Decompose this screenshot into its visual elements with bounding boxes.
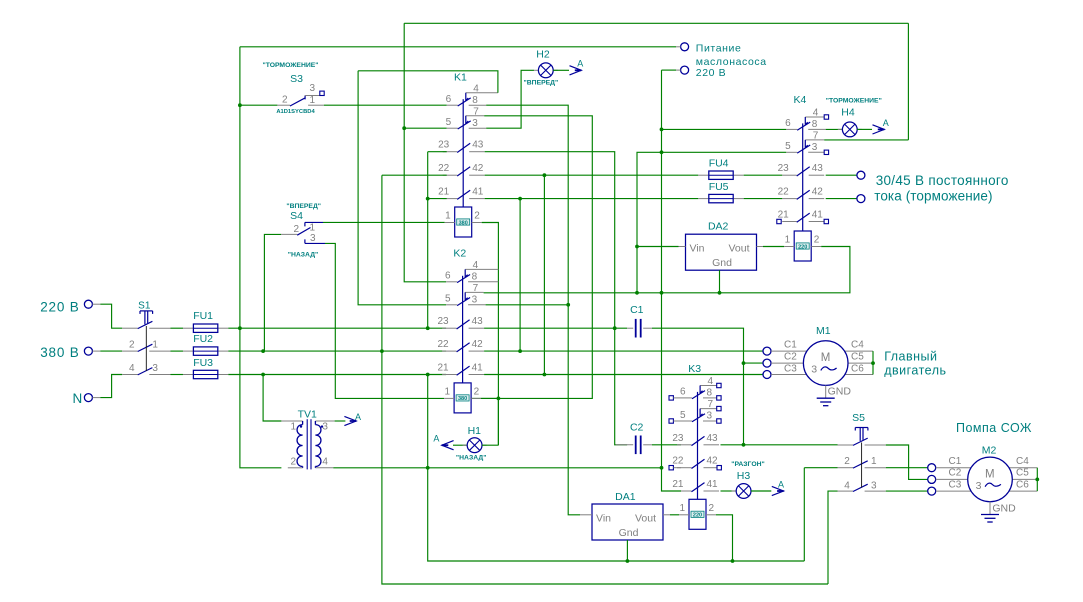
S3 pin numbers (282, 83, 316, 106)
contactor K4 contact 6-4-8 (786, 117, 826, 130)
lamp H4 (838, 122, 862, 137)
terminal 380V (84, 347, 92, 355)
wire DA2 Vin feed (637, 246, 679, 248)
wire bus to K3-21 (662, 70, 682, 491)
motor M1 terminals (763, 347, 873, 378)
net arrow A at H2 (570, 66, 582, 75)
wire K4-43 to terminal (826, 174, 857, 176)
contactor K3 coil (679, 499, 716, 529)
wire DA2 Vin stub (679, 246, 686, 248)
terminal 220V (84, 300, 92, 308)
svg-text:42: 42 (472, 163, 484, 174)
label M2 GND (992, 503, 1016, 515)
wire K2-7 to DA2 Vin net (484, 152, 662, 292)
K2 pins 6 4 8 7 (445, 260, 479, 294)
label FU1 (193, 310, 213, 322)
label M2 (982, 445, 997, 457)
svg-text:3: 3 (310, 83, 316, 94)
wire K3-41 to H3 (721, 490, 737, 492)
junction FU2/S4 (261, 349, 265, 353)
wire S1-1 to FU1 (171, 327, 184, 329)
label H4 (841, 107, 855, 119)
contactor K1 spine (462, 99, 464, 207)
svg-text:4: 4 (844, 481, 850, 492)
svg-text:43: 43 (812, 163, 824, 174)
label TV1 (298, 408, 317, 420)
wire 220V to S1 (100, 304, 122, 328)
switch S5 pole 2 (838, 461, 886, 468)
wire S3 left (240, 104, 278, 106)
svg-text:220 В: 220 В (40, 300, 79, 315)
svg-text:41: 41 (472, 363, 484, 374)
TV1 pin numbers (290, 422, 328, 468)
wire H2 left (521, 70, 534, 77)
svg-text:3: 3 (976, 480, 982, 492)
terminal 30/45V 1 (857, 171, 865, 179)
K1 pins 6 4 8 7 (446, 83, 480, 117)
svg-text:H3: H3 (737, 470, 751, 482)
svg-text:M: M (985, 468, 995, 480)
contactor K2 contact 21-41 (442, 366, 484, 375)
K4 pins 23 43 (778, 163, 824, 174)
S1 pin numbers (129, 340, 158, 374)
wire K4-5 feed (662, 151, 787, 153)
junction K1-42 tap (543, 173, 547, 177)
label C1 (630, 304, 644, 316)
svg-text:"ТОРМОЖЕНИЕ": "ТОРМОЖЕНИЕ" (826, 98, 882, 105)
K2 pins 21 41 (437, 363, 483, 374)
ground M1 (817, 385, 835, 405)
svg-text:C3: C3 (784, 363, 797, 374)
junction bus end (660, 466, 664, 470)
wire DA2 Vout to K4 coil (757, 246, 764, 248)
svg-text:2: 2 (290, 456, 296, 467)
switch S1 label (138, 300, 151, 311)
label S3 type (276, 109, 315, 115)
wire TV1-1 riser (263, 375, 281, 422)
wire FU4 to K4-23 (744, 174, 783, 176)
regulator DA1 (592, 504, 663, 540)
svg-text:5: 5 (680, 410, 686, 421)
switch S5 pole 3 (838, 484, 886, 491)
K1 pins 23 43 (438, 140, 484, 151)
svg-text:"НАЗАД": "НАЗАД" (288, 252, 319, 259)
svg-text:2: 2 (129, 340, 135, 351)
svg-text:Gnd: Gnd (619, 527, 639, 539)
junction C1 left (613, 326, 617, 330)
wire K1 coil return (482, 223, 499, 446)
label 30/45V text (874, 173, 1008, 204)
K3 pins 23 43 (672, 433, 718, 444)
wire S1-3 to FU3 (171, 374, 184, 376)
wire S5 pole3 left (828, 491, 838, 584)
contactor K2 contact 22-42 (442, 343, 484, 352)
svg-text:22: 22 (672, 456, 684, 467)
svg-text:22: 22 (437, 339, 449, 350)
wire K1-21 feed (428, 198, 447, 200)
svg-text:Помпа СОЖ: Помпа СОЖ (956, 421, 1032, 435)
K4 pins 6 4 8 7 (785, 108, 819, 142)
wire 380V to S1 (100, 350, 122, 352)
wire top border (404, 22, 908, 24)
K3 pins 6 4 8 7 (680, 376, 714, 410)
junction K1-5 tap (402, 126, 406, 130)
svg-text:5: 5 (445, 294, 451, 305)
K2 pins 23 43 (437, 316, 483, 327)
label H3 caption (731, 461, 765, 468)
svg-text:43: 43 (472, 140, 484, 151)
wire K1-22 vertical (382, 175, 828, 584)
junction K1-41 tap (518, 197, 522, 201)
svg-text:тока (торможение): тока (торможение) (874, 189, 992, 204)
wire H4 left (826, 128, 843, 130)
wire S5 pole2 feed (804, 467, 837, 469)
svg-text:8: 8 (707, 388, 713, 399)
svg-text:5: 5 (785, 141, 791, 152)
wire K4-7 to top border (824, 139, 908, 141)
svg-text:Vout: Vout (635, 513, 656, 525)
svg-text:2: 2 (293, 224, 299, 235)
wire S4-3 to K2 coil (325, 243, 444, 398)
label pump text (956, 421, 1032, 435)
junction K2-41 row (543, 373, 547, 377)
fuse FU2 (183, 347, 228, 355)
svg-text:H2: H2 (536, 49, 550, 61)
wire K2-41 to M1-C3 (484, 374, 763, 376)
svg-text:A: A (883, 118, 889, 128)
contactor K3 contact 5-7-3 (681, 409, 717, 422)
svg-text:S4: S4 (290, 210, 303, 222)
contactor K1 coil (445, 207, 482, 237)
wire H3 right (751, 490, 771, 492)
wire N terminal stub (92, 397, 100, 399)
svg-text:C5: C5 (1016, 468, 1029, 479)
svg-text:2: 2 (474, 211, 480, 222)
svg-text:C1: C1 (949, 456, 962, 467)
label A at TV1 (355, 412, 361, 422)
switch S1 link (145, 326, 147, 371)
wire FU2 to K2-22 row (228, 350, 446, 352)
svg-text:Vin: Vin (690, 243, 705, 255)
svg-text:Питание: Питание (696, 43, 742, 55)
svg-text:4: 4 (473, 83, 479, 94)
wire H4 right (857, 128, 872, 130)
label FU2 (193, 333, 213, 345)
svg-text:23: 23 (778, 163, 790, 174)
svg-text:K3: K3 (688, 363, 701, 375)
terminal pump supply 2 (681, 66, 689, 74)
svg-text:1: 1 (445, 211, 451, 222)
svg-text:3: 3 (152, 363, 158, 374)
wire S5 pole1 to M2-C2 (886, 445, 928, 479)
wire K1-42 to FU4 (485, 174, 699, 176)
label A at H1 (433, 434, 439, 444)
label S4 (290, 210, 303, 222)
junction M1 bracket (871, 361, 875, 365)
svg-text:41: 41 (707, 479, 719, 490)
K3 unconnected pin square (669, 419, 673, 423)
svg-text:"ВПЕРЕД": "ВПЕРЕД" (286, 203, 321, 210)
junction DA2 return (660, 291, 664, 295)
svg-text:Vout: Vout (728, 243, 749, 255)
contactor K1 contact 21-41 (443, 190, 485, 199)
wire S4-1 to K1 coil (323, 221, 445, 223)
svg-text:8: 8 (812, 119, 818, 130)
label FU3 (193, 357, 213, 369)
svg-text:1: 1 (290, 422, 296, 433)
svg-text:41: 41 (812, 210, 824, 221)
wire K4 coil return (637, 247, 850, 293)
svg-text:A: A (577, 59, 583, 69)
terminal N (84, 394, 92, 402)
svg-text:маслонасоса: маслонасоса (696, 56, 767, 68)
wire DA2 gnd stem (719, 270, 721, 293)
K4 pins 21 41 (778, 210, 824, 221)
wire H2 right (553, 69, 569, 71)
wire oil pump supply (240, 46, 676, 48)
wire S3 to K1-6 (324, 104, 447, 106)
wire S5-3 to M2-C3 (886, 490, 928, 492)
K4 unconnected pin square (824, 115, 828, 119)
svg-text:1: 1 (445, 387, 451, 398)
contactor K3 contact 21-41 (677, 483, 719, 492)
svg-text:двигатель: двигатель (884, 364, 946, 378)
svg-text:2: 2 (709, 503, 715, 514)
wire DA1 Vout to K3 coil (663, 514, 670, 516)
contactor K3 contact 6-4-8 (681, 386, 717, 399)
lamp H3 (732, 484, 756, 499)
pushbutton S4 (281, 222, 325, 243)
svg-text:C2: C2 (630, 422, 644, 434)
svg-text:1: 1 (785, 235, 791, 246)
label M1 GND (828, 386, 852, 398)
K4 unconnected pin square (824, 219, 828, 223)
svg-text:GND: GND (992, 503, 1016, 515)
capacitor C1 (627, 327, 652, 329)
svg-text:1: 1 (871, 456, 877, 467)
wire K2-3 to DA1 riser (486, 304, 569, 306)
svg-text:FU2: FU2 (193, 333, 213, 345)
svg-text:6: 6 (445, 271, 451, 282)
svg-text:42: 42 (707, 456, 719, 467)
label H3 (737, 470, 751, 482)
junction FU3/K1 branch (426, 373, 430, 377)
contactor K4 coil (784, 231, 821, 261)
wire M1-C2 feed (744, 362, 763, 364)
wire K1-7 to K2 coil net (471, 116, 592, 399)
label pump supply text (696, 43, 767, 80)
K2 pins 5 3 (445, 294, 478, 306)
wire S5 pole2 riser (803, 468, 805, 561)
K3 coil pins 1 2 (679, 503, 714, 514)
net arrow A at TV1 (344, 416, 356, 425)
label H1 caption (456, 454, 487, 461)
K2 pins 22 42 (437, 339, 483, 350)
svg-text:5: 5 (446, 117, 452, 128)
wire K1-23 branch (428, 151, 447, 153)
wire S4 common (264, 234, 281, 351)
label FU5 (709, 181, 729, 193)
svg-text:A: A (778, 479, 784, 489)
wire K1-8 to DA1 net (486, 105, 580, 515)
svg-text:380: 380 (458, 396, 467, 402)
svg-text:3: 3 (472, 118, 478, 129)
wire M2 right bracket (1036, 468, 1038, 491)
K3 unconnected pin square (717, 419, 721, 423)
wire bus FU1 phase vertical (240, 47, 282, 468)
svg-text:21: 21 (438, 187, 450, 198)
wire FU3 to K2-21 row (228, 374, 446, 376)
svg-text:4: 4 (813, 108, 819, 119)
contactor K4 contact 23-43 (782, 167, 824, 176)
wire K4-6 feed (662, 128, 787, 130)
junction S3 tap (238, 103, 242, 107)
wire K1-22 left (382, 174, 447, 176)
junction K4-5 (660, 150, 664, 154)
svg-text:8: 8 (472, 271, 478, 282)
junction K4-6 (660, 127, 664, 131)
K3 unconnected pin square (669, 466, 673, 470)
junction DA2 Vin branch (635, 245, 639, 249)
switch S5 actuator (855, 428, 868, 441)
contactor K4 contact 22-42 (782, 190, 824, 199)
regulator DA2 (686, 234, 757, 270)
svg-text:3: 3 (707, 411, 713, 422)
label DA2 (708, 221, 729, 233)
svg-text:H4: H4 (841, 107, 855, 119)
K3 pins 21 41 (672, 479, 718, 490)
svg-text:23: 23 (672, 433, 684, 444)
svg-text:1: 1 (310, 223, 316, 234)
svg-text:K1: K1 (454, 72, 467, 84)
svg-text:380: 380 (459, 220, 468, 226)
wire S1-2 to FU2 (171, 350, 184, 352)
switch S1 pole 3 (122, 368, 170, 375)
contactor K4 contact 5-7-3 (786, 140, 824, 153)
capacitor C2 plates (636, 436, 641, 455)
svg-text:22: 22 (438, 163, 450, 174)
K4 pins 22 42 (778, 187, 824, 198)
label main motor text (884, 350, 946, 378)
motor M1 (803, 341, 848, 386)
contactor K3 contact 22-42 (677, 459, 719, 468)
contactor K2 contact 5-7-3 (446, 292, 486, 305)
contactor K3 contact 23-43 (677, 436, 719, 445)
svg-text:42: 42 (812, 187, 824, 198)
label H1 (468, 425, 482, 437)
lamp H2 (534, 63, 558, 78)
wire S3 aux vertical (358, 71, 446, 305)
svg-text:220: 220 (693, 513, 702, 519)
contactor K4 label (793, 94, 806, 106)
label FU4 (709, 158, 729, 170)
fuse FU1 (183, 324, 228, 332)
svg-text:41: 41 (472, 187, 484, 198)
wire N to S1 (100, 375, 122, 398)
wire pump terminal2 stub (676, 69, 681, 71)
K3 unconnected pin square (669, 396, 673, 400)
svg-text:6: 6 (446, 94, 452, 105)
wire K1-5 feed (404, 127, 447, 129)
wire K1-3 to H2 (486, 78, 521, 129)
svg-text:N: N (72, 391, 83, 406)
label A at H4 (883, 118, 889, 128)
wire S5 pole1 feed (744, 444, 838, 446)
svg-text:43: 43 (707, 433, 719, 444)
wire DA1 Vout link (670, 514, 679, 516)
K4 unconnected pin square (824, 150, 828, 154)
M1 terminal labels (784, 339, 864, 374)
K3 pins 5 3 (680, 410, 713, 422)
svg-text:M: M (821, 352, 831, 364)
svg-text:4: 4 (129, 363, 135, 374)
svg-text:23: 23 (437, 316, 449, 327)
lamp H1 (463, 438, 487, 453)
wire left border vertical (404, 23, 446, 282)
svg-text:6: 6 (785, 118, 791, 129)
svg-text:GND: GND (828, 386, 852, 398)
wire DA2 Vout link (763, 246, 784, 248)
svg-text:3: 3 (811, 364, 817, 376)
svg-text:C1: C1 (784, 339, 797, 350)
switch S1 pole 1 (122, 321, 170, 328)
wire FU5 to K4-22 (744, 198, 783, 200)
wire K1 branch vertical B (428, 375, 805, 562)
wire pump supply 2 to bus (662, 69, 677, 71)
contactor K2 label (453, 247, 466, 259)
label S5 (852, 412, 865, 424)
contactor K2 spine (462, 276, 464, 383)
K1 pins 21 41 (438, 187, 484, 198)
contactor K2 contact 23-43 (442, 320, 484, 329)
wire DA1 Vin stub (580, 514, 592, 516)
transformer TV1 (281, 419, 334, 469)
K2 coil pins 1 2 (445, 387, 480, 398)
svg-text:21: 21 (672, 479, 684, 490)
junction DA2 gnd (718, 291, 722, 295)
svg-text:4: 4 (322, 456, 328, 467)
label M1 (816, 325, 831, 337)
svg-text:3: 3 (472, 294, 478, 305)
label S4 caption2 (288, 252, 319, 259)
contactor K2 contact 6-4-8 (446, 269, 498, 282)
K1 coil pins 1 2 (445, 211, 480, 222)
wire K1-41 to FU5 (485, 198, 699, 200)
svg-text:FU4: FU4 (709, 158, 729, 170)
label S3 caption (262, 62, 318, 69)
svg-text:S5: S5 (852, 412, 865, 424)
svg-text:C6: C6 (851, 363, 864, 374)
svg-text:TV1: TV1 (298, 408, 317, 420)
contactor K1 contact 6-4-8 (447, 93, 498, 106)
svg-text:K2: K2 (453, 247, 466, 259)
svg-text:8: 8 (472, 95, 478, 106)
svg-text:3: 3 (812, 142, 818, 153)
svg-text:"ТОРМОЖЕНИЕ": "ТОРМОЖЕНИЕ" (262, 62, 318, 69)
junction H1/K2 coil (497, 397, 501, 401)
wire H1 left (453, 444, 467, 446)
wire C1 right (652, 328, 744, 445)
terminal 30/45V 2 (857, 195, 865, 203)
wire pump terminal1 stub (676, 46, 681, 48)
wire H1 riser (497, 398, 499, 445)
junction K2-7 return (635, 291, 639, 295)
svg-text:"ВПЕРЕД": "ВПЕРЕД" (524, 79, 559, 86)
pushbutton S3 (277, 91, 324, 106)
contactor K3 label (688, 363, 701, 375)
svg-text:Главный: Главный (884, 350, 937, 364)
svg-text:6: 6 (680, 387, 686, 398)
